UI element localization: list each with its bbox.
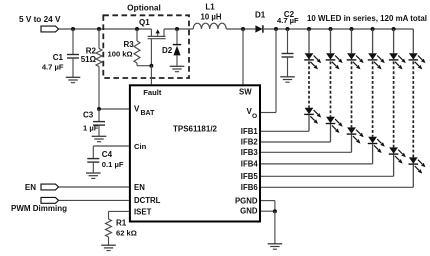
wire string 1 dashed continuation	[308, 61, 310, 107]
label R2	[86, 47, 97, 56]
svg-text:R1: R1	[116, 219, 127, 228]
svg-text:O: O	[252, 113, 257, 120]
wire string 4 top	[372, 29, 374, 53]
label 5 V to 24 V	[19, 15, 61, 24]
ground C1	[66, 77, 81, 82]
junction string 3 tap	[350, 27, 354, 31]
pin label EN	[134, 183, 145, 192]
svg-text:V: V	[134, 105, 140, 114]
svg-text:10 µH: 10 µH	[201, 12, 222, 21]
resistor R2	[96, 29, 102, 67]
wire string 3 top	[351, 29, 353, 53]
svg-text:IFB5: IFB5	[241, 172, 259, 181]
wire output rail	[263, 28, 413, 30]
label L1 value	[201, 12, 222, 21]
label C3	[83, 111, 94, 120]
label D2	[162, 46, 173, 55]
label R3	[124, 40, 135, 49]
svg-text:ISET: ISET	[134, 207, 152, 216]
svg-text:EN: EN	[25, 183, 36, 192]
label C1 value	[42, 62, 64, 71]
svg-text:SW: SW	[239, 88, 252, 97]
wire string 2 dashed continuation	[330, 61, 332, 116]
junction string 4 tap	[371, 27, 375, 31]
svg-text:L1: L1	[205, 3, 215, 12]
wire EN	[59, 186, 129, 188]
svg-text:62 kΩ: 62 kΩ	[116, 228, 137, 237]
pin label VO	[247, 107, 258, 120]
wire string 2 top	[330, 29, 332, 53]
wire string 3 dashed continuation	[351, 61, 353, 127]
LED string 3 top diode	[347, 53, 364, 69]
svg-text:D1: D1	[255, 10, 266, 19]
label C2	[284, 10, 295, 19]
label R2 value	[81, 55, 97, 64]
pin label DCTRL	[134, 196, 161, 205]
LED string 4 bottom diode	[368, 137, 385, 153]
wire string 6 to IFB6	[261, 165, 413, 188]
svg-text:4.7 µF: 4.7 µF	[277, 16, 299, 25]
pin label IFB5	[241, 172, 259, 181]
wire string 5 top	[393, 29, 395, 53]
transistor Q1	[148, 29, 166, 39]
label Q1	[139, 18, 150, 27]
LED string 5 top diode	[389, 53, 406, 69]
op-amp U1 TPS61181/2 body	[130, 85, 260, 221]
svg-text:Q1: Q1	[139, 18, 150, 27]
svg-text:TPS61181/2: TPS61181/2	[173, 124, 218, 133]
ground C3	[92, 136, 107, 141]
capacitor C1 body	[67, 29, 79, 77]
junction SW tap	[241, 27, 245, 31]
wire string 2 to IFB2	[261, 124, 331, 142]
wire string 6 top	[412, 29, 414, 53]
svg-text:BAT: BAT	[141, 110, 156, 117]
junction R2 tap	[97, 27, 101, 31]
wire rail Q1 to L1	[164, 28, 193, 30]
svg-text:IFB1: IFB1	[241, 127, 259, 136]
pin label IFB2	[241, 138, 259, 147]
pin label IFB4	[241, 160, 259, 169]
label R1 value	[116, 228, 137, 237]
svg-text:DCTRL: DCTRL	[134, 196, 161, 205]
diode D2	[173, 29, 181, 66]
junction VBAT node	[97, 107, 101, 111]
svg-text:10 WLED in series, 120 mA tota: 10 WLED in series, 120 mA total	[307, 14, 427, 23]
label D1	[255, 10, 266, 19]
svg-text:PWM Dimming: PWM Dimming	[11, 204, 67, 213]
LED string 6 top diode	[409, 53, 426, 69]
svg-text:IFB3: IFB3	[241, 148, 259, 157]
LED string 2 bottom diode	[326, 117, 343, 133]
svg-text:1 µF: 1 µF	[83, 124, 99, 133]
terminal PWM arrow	[41, 197, 59, 203]
capacitor C2	[282, 29, 294, 77]
wire SW drop	[242, 29, 244, 84]
pin label GND	[240, 207, 258, 216]
label WLED note	[307, 14, 427, 23]
LED string 2 top diode	[326, 53, 343, 69]
svg-text:R3: R3	[124, 40, 135, 49]
svg-text:Cin: Cin	[134, 142, 147, 151]
input terminal VIN	[41, 26, 59, 32]
wire string 5 to IFB5	[261, 155, 394, 177]
wire input rail	[59, 28, 152, 30]
label C4 value	[102, 160, 124, 169]
wire L1 to D1	[226, 28, 255, 30]
LED string 1 bottom diode	[304, 108, 321, 124]
wire gate node to Fault pin	[150, 66, 152, 85]
terminal EN arrow	[41, 184, 59, 190]
ground R1	[101, 245, 116, 250]
label R1	[116, 219, 127, 228]
LED string 5 bottom diode	[389, 147, 406, 163]
label R3 value	[108, 50, 133, 59]
svg-text:0.1 µF: 0.1 µF	[102, 160, 124, 169]
ground D2	[170, 66, 185, 71]
pin label ISET	[134, 207, 152, 216]
label C3 value	[83, 124, 99, 133]
junction VO tap	[274, 27, 278, 31]
pin label VBAT	[134, 105, 155, 118]
pin label IFB6	[241, 183, 259, 192]
ground C4	[86, 173, 101, 178]
wire PGND pin	[261, 201, 275, 212]
LED string 1 top diode	[304, 53, 321, 69]
label PWM Dimming	[11, 204, 67, 213]
pin label SW	[239, 88, 252, 97]
resistor R1	[106, 219, 112, 245]
svg-text:IFB6: IFB6	[241, 183, 259, 192]
wire R2 to VBAT node	[98, 67, 100, 110]
wire GND pin	[261, 210, 275, 212]
junction C1 tap	[71, 27, 75, 31]
junction R3 tap	[135, 27, 139, 31]
wire Q1 gate tail	[150, 39, 152, 66]
capacitor C3	[93, 109, 105, 136]
wire string 5 dashed continuation	[393, 61, 395, 147]
wire ISET pin	[109, 211, 129, 219]
label TPS61181/2	[173, 124, 218, 133]
svg-text:Optional: Optional	[127, 3, 161, 13]
svg-text:C3: C3	[83, 111, 94, 120]
svg-text:4.7 µF: 4.7 µF	[42, 62, 64, 71]
pin label IFB3	[241, 148, 259, 157]
wire string 4 dashed continuation	[372, 61, 374, 136]
pin label IFB1	[241, 127, 259, 136]
junction GND node	[273, 209, 277, 213]
wire string 1 top	[308, 29, 310, 53]
LED string 3 bottom diode	[347, 127, 364, 143]
svg-text:IFB4: IFB4	[241, 160, 259, 169]
wire Cin pin	[93, 145, 129, 147]
junction string 1 tap	[307, 27, 311, 31]
wire VO riser	[261, 29, 276, 113]
svg-text:EN: EN	[134, 183, 145, 192]
label EN terminal	[25, 183, 36, 192]
junction C2 tap	[286, 27, 290, 31]
LED string 6 bottom diode	[409, 157, 426, 173]
inductor L1	[193, 23, 226, 29]
label C4	[102, 150, 113, 159]
LED string 4 top diode	[368, 53, 385, 69]
optional dashed box	[103, 15, 189, 78]
label L1	[205, 3, 215, 12]
wire string 4 to IFB4	[261, 144, 373, 164]
pin label PGND	[235, 197, 258, 206]
ground IC GND	[268, 244, 283, 249]
junction D2 tap	[175, 27, 179, 31]
svg-text:GND: GND	[240, 207, 258, 216]
wire VBAT pin	[99, 108, 129, 110]
label C1	[53, 53, 64, 62]
wire string 6 dashed continuation	[412, 61, 414, 157]
svg-text:C1: C1	[53, 53, 64, 62]
wire R3 bottom to gate node	[137, 65, 151, 67]
wire string 3 to IFB3	[261, 135, 352, 153]
svg-text:IFB2: IFB2	[241, 138, 259, 147]
svg-text:5 V to 24 V: 5 V to 24 V	[19, 15, 61, 24]
svg-text:Fault: Fault	[143, 88, 162, 97]
wire GND drop	[274, 211, 276, 244]
label C2 value	[277, 16, 299, 25]
pin label Fault	[143, 88, 162, 97]
svg-text:C4: C4	[102, 150, 113, 159]
ground C2	[280, 77, 295, 82]
resistor R3	[134, 29, 140, 66]
svg-text:R2: R2	[86, 47, 97, 56]
junction gate node	[149, 64, 153, 68]
capacitor C4	[87, 146, 99, 173]
svg-text:51Ω: 51Ω	[81, 55, 97, 64]
junction string 2 tap	[329, 27, 333, 31]
pin label Cin	[134, 142, 147, 151]
svg-text:D2: D2	[162, 46, 173, 55]
junction string 5 tap	[392, 27, 396, 31]
svg-text:100 kΩ: 100 kΩ	[108, 50, 133, 59]
wire DCTRL	[59, 199, 129, 201]
diode D1	[255, 25, 263, 33]
svg-text:PGND: PGND	[235, 197, 258, 206]
label Optional	[127, 3, 161, 13]
wire string 1 to IFB1	[261, 115, 309, 132]
